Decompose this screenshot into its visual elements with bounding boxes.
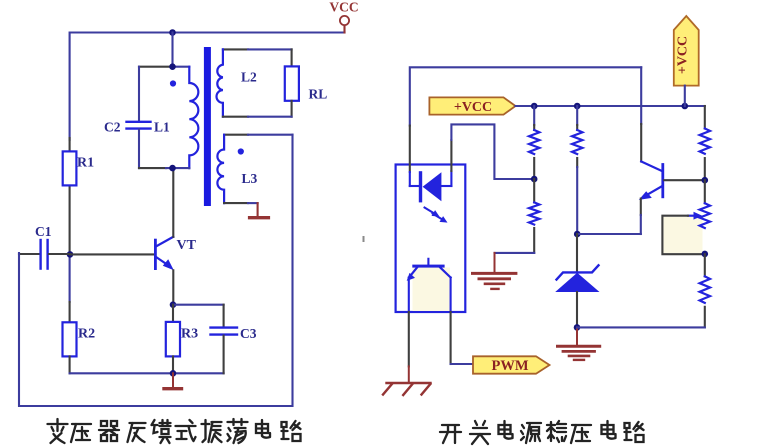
LED D1 in optocoupler (419, 171, 452, 202)
svg-text:PWM: PWM (491, 358, 528, 374)
VCC terminal (329, 0, 358, 33)
wire opto emitter to chassis ground (408, 312, 410, 366)
wire collector drop (640, 67, 642, 124)
transformer core (204, 47, 211, 206)
svg-text:R1: R1 (77, 156, 94, 171)
svg-text:+VCC: +VCC (675, 36, 690, 74)
resistor R8 emitter leg (700, 254, 710, 327)
wire bottom emitter rail (70, 372, 224, 374)
node zener top junction (574, 231, 581, 238)
svg-text:C2: C2 (104, 120, 121, 135)
power flag +VCC vertical (674, 16, 699, 106)
wire +VCC rail (516, 105, 705, 107)
wire VT collector (172, 168, 174, 237)
tank circuit box C2/L1 (104, 63, 198, 171)
wire L2 right edge (291, 49, 293, 66)
resistor R7 collector pullup (700, 106, 710, 180)
node junction top (tank to rail) (169, 29, 176, 36)
phototransistor Q1 (407, 259, 451, 312)
wire L3 top edge (224, 134, 248, 136)
capacitor C1 (19, 224, 70, 269)
wire base wire to VT (70, 253, 154, 255)
node bottom junction (170, 370, 177, 377)
node divider junction (531, 176, 538, 183)
node rail junction 2 (574, 103, 581, 110)
feedback loop outer wire (19, 135, 293, 406)
resistor R4 divider top (529, 106, 539, 179)
caption left: 变压器反馈式振荡电路 (48, 419, 301, 443)
node emitter junction (170, 301, 177, 308)
light arrows (425, 208, 448, 223)
node rail junction 1 (531, 103, 538, 110)
node L3 polarity dot (238, 148, 244, 154)
resistor RL (285, 66, 299, 100)
optocoupler U1 box (396, 165, 466, 313)
svg-text:C3: C3 (240, 326, 257, 341)
wire wiper loop (662, 216, 704, 255)
node zener bottom junction (574, 324, 581, 331)
svg-text:L2: L2 (241, 70, 257, 85)
svg-text:C1: C1 (35, 224, 52, 239)
node L1 polarity dot (170, 80, 176, 86)
wire bottom return (577, 326, 705, 328)
inductor L1 (189, 67, 198, 168)
resistor R5 divider bottom (529, 179, 539, 253)
wire top rail right circuit (410, 67, 641, 125)
node tank top junction (169, 63, 176, 70)
stray mark artifact (363, 236, 365, 242)
svg-text:L1: L1 (154, 120, 170, 135)
earth ground 2 (558, 327, 600, 360)
wire base node vertical down to R2 (69, 254, 71, 302)
transistor VT (154, 237, 197, 270)
svg-text:VT: VT (177, 238, 197, 253)
resistor R1 (63, 151, 77, 185)
wire tank top edge (139, 66, 173, 68)
node tank bottom junction (169, 165, 176, 172)
power flag +VCC horizontal (429, 97, 515, 115)
phototransistor backdrop (413, 268, 451, 312)
secondary winding L2 box (216, 49, 327, 116)
wire L2 bottom edge (223, 116, 248, 118)
wire emitter to C3 (173, 304, 224, 306)
wire zener junction to emitter (577, 233, 641, 235)
node base junction (702, 177, 709, 184)
svg-text:R3: R3 (181, 327, 198, 342)
wire VT emitter (172, 270, 174, 304)
wire L2 top edge (223, 48, 248, 50)
wire rail to tank top (171, 33, 173, 67)
wire top rail left circuit (70, 33, 345, 141)
tertiary winding L3 (217, 135, 292, 218)
svg-text:VCC: VCC (329, 0, 358, 15)
resistor R3 (166, 305, 198, 374)
caption right: 开关电源稳压电路 (440, 421, 644, 444)
wire LED anode up and over to divider (450, 171, 452, 186)
transistor Q2 (639, 162, 664, 200)
earth ground 1 (473, 253, 516, 289)
inductor L2 (216, 49, 222, 116)
wire Q2 base (664, 179, 705, 181)
ground L3 (257, 203, 259, 216)
node pot bottom junction (702, 251, 709, 258)
svg-text:L3: L3 (242, 171, 258, 186)
wire LED cathode lead from top-left (409, 126, 411, 172)
wire L3 bottom edge (224, 202, 248, 204)
capacitor C2 (138, 67, 140, 121)
resistor R6 zener feed (572, 106, 582, 234)
ground (emitter rail) (164, 373, 182, 388)
chassis ground (383, 366, 430, 395)
potentiometer RP (662, 180, 710, 254)
wire opto collector to PWM (450, 312, 452, 364)
port flag PWM (473, 356, 550, 374)
wire Q2 emitter down (640, 199, 642, 216)
node rail junction 3 (682, 103, 689, 110)
wire R1 pin stubs (69, 138, 71, 151)
wire to earth ground 1 (495, 252, 535, 254)
zener diode D2 (555, 234, 599, 327)
resistor R2 (63, 322, 96, 373)
svg-text:R2: R2 (78, 327, 95, 342)
node base junction (67, 251, 74, 258)
wiper arrow (688, 215, 695, 217)
capacitor C3 (211, 326, 257, 373)
svg-text:+VCC: +VCC (454, 100, 492, 115)
inductor L3 (217, 135, 224, 203)
wiper backdrop (664, 217, 703, 253)
svg-text:RL: RL (309, 87, 328, 102)
wire tank bottom edge (139, 167, 166, 169)
